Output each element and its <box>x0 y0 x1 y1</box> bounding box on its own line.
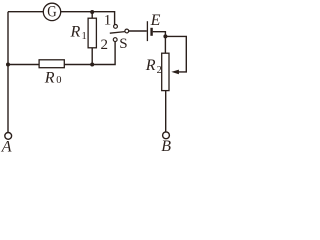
rheostat wiper arrowhead <box>171 70 179 75</box>
battery E long plate <box>146 21 148 41</box>
switch S contact 1 <box>114 25 118 29</box>
wire switch pivot to battery <box>129 30 147 32</box>
switch S pivot <box>125 29 129 33</box>
wire wiper branch right and down <box>165 36 186 72</box>
svg-text:R: R <box>70 23 81 40</box>
resistor R1 <box>88 12 96 65</box>
switch S contact 2 <box>113 38 117 42</box>
svg-text:R: R <box>44 69 55 86</box>
svg-text:S: S <box>119 36 127 52</box>
wire left vertical <box>7 12 9 132</box>
svg-text:0: 0 <box>56 75 61 86</box>
terminal B <box>163 132 170 139</box>
node junction dot above R2 <box>163 34 167 38</box>
svg-text:A: A <box>1 139 12 156</box>
resistor R0 <box>39 60 64 68</box>
switch S lever <box>110 32 125 34</box>
svg-text:R: R <box>145 57 156 74</box>
svg-text:2: 2 <box>101 37 109 53</box>
svg-text:2: 2 <box>157 65 162 76</box>
svg-text:1: 1 <box>82 31 87 42</box>
wire mid horizontal left of R0 <box>8 64 39 66</box>
galvanometer G <box>43 3 60 21</box>
terminal A <box>5 133 12 140</box>
wire R2 bottom to terminal B <box>165 91 167 132</box>
node junction dot bottom of R1 <box>90 63 94 67</box>
wire top right segment with corner down to contact 1 <box>61 12 115 25</box>
wire top left segment <box>8 11 43 13</box>
rheostat R2 <box>162 53 169 90</box>
svg-text:E: E <box>150 12 161 29</box>
svg-text:B: B <box>161 138 171 155</box>
svg-text:G: G <box>47 4 56 21</box>
wire battery to corner above R2 <box>153 32 166 54</box>
node junction dot on left wire <box>6 63 10 67</box>
svg-text:1: 1 <box>104 12 112 28</box>
battery E short thick plate <box>150 28 152 36</box>
node junction dot top of R1 <box>90 10 94 14</box>
wire mid horizontal right of R0 up to contact 2 <box>64 42 115 65</box>
